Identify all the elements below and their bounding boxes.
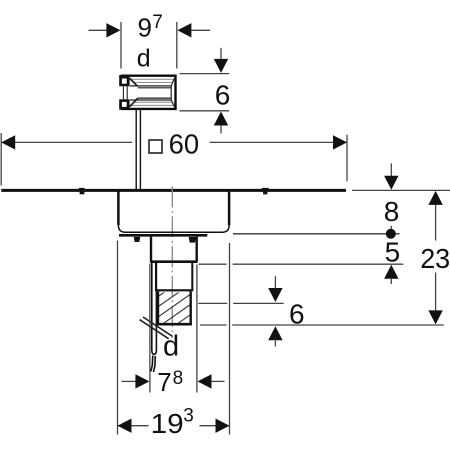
svg-text:23: 23 xyxy=(420,243,450,274)
flange tab left xyxy=(79,188,85,190)
junction dot xyxy=(386,229,396,239)
dimension 9.7 (top width of coupling) xyxy=(89,22,211,69)
outlet seal (hatched) xyxy=(157,263,192,347)
svg-text:60: 60 xyxy=(169,129,200,160)
svg-text:3: 3 xyxy=(183,406,194,427)
svg-text:19: 19 xyxy=(151,408,184,439)
vertical inlet pipe xyxy=(136,110,140,190)
reference line L3 (5-bottom level) xyxy=(199,263,404,265)
centerline xyxy=(171,187,173,339)
svg-text:9: 9 xyxy=(138,13,152,43)
dimension 19.3 (body width) xyxy=(118,241,230,435)
floor flange line xyxy=(1,189,346,192)
dimension 23 (overall depth) xyxy=(435,202,437,312)
coupling clip top-left xyxy=(119,75,129,86)
reference line L4 (6-top level, short) xyxy=(198,302,283,304)
svg-text:6: 6 xyxy=(215,80,231,111)
svg-text:8: 8 xyxy=(384,196,400,227)
svg-text:d: d xyxy=(137,44,151,72)
svg-text:8: 8 xyxy=(173,368,184,389)
break mark xyxy=(140,317,173,339)
body clip right xyxy=(189,237,196,243)
svg-text:d: d xyxy=(163,331,179,363)
dimension 6 (coupling height, right of coupling) xyxy=(180,48,230,134)
outlet section 1 xyxy=(150,237,197,262)
svg-text:5: 5 xyxy=(385,236,401,267)
reference line L2 (body underside level) xyxy=(233,233,400,235)
svg-text:7: 7 xyxy=(152,12,163,33)
svg-text:7: 7 xyxy=(157,367,171,397)
body clip left xyxy=(134,237,141,242)
body lip xyxy=(119,234,207,237)
dimension square-60 (flange width) xyxy=(1,133,347,186)
flange tab right xyxy=(262,188,269,190)
svg-text:6: 6 xyxy=(289,298,305,329)
reference line at flange level (right) xyxy=(352,189,450,191)
dimension 6 (lower seal depth) xyxy=(274,276,276,289)
dimension 8 (flange to underside) xyxy=(390,163,392,176)
body box under flange xyxy=(118,192,229,233)
thin pipe d (broken) xyxy=(151,263,157,372)
inlet coupling (ribbed sleeve, side view) xyxy=(121,76,176,109)
reference line L5 (bottom level) xyxy=(200,324,444,326)
outlet section 2 xyxy=(155,263,193,290)
dimension 7.8 (outlet width) xyxy=(122,264,225,393)
coupling clip bottom-left xyxy=(119,99,129,109)
